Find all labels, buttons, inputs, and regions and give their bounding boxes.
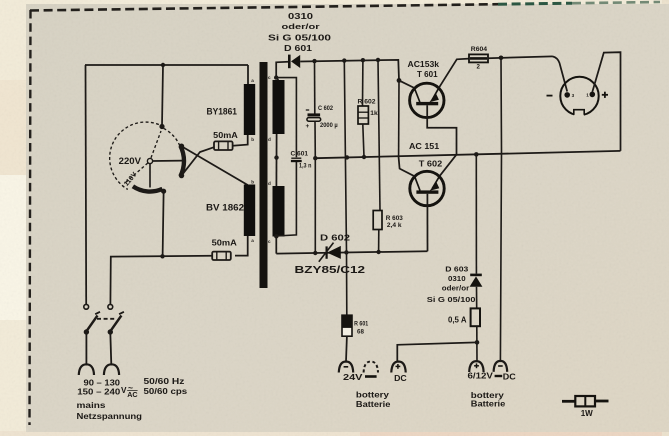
wire: secondary center tap: [275, 134, 277, 186]
svg-text:R604: R604: [471, 46, 488, 53]
transformer core: [260, 62, 268, 288]
label 24V with DC dash: [343, 372, 377, 382]
svg-text:1: 1: [586, 93, 589, 98]
node: secondary bottom junction: [274, 234, 278, 238]
switch pole 2 (mains): [108, 304, 124, 334]
svg-text:R 602: R 602: [358, 99, 376, 106]
label DC (24V): [394, 373, 407, 383]
node: zener rail R603: [376, 250, 380, 254]
wire: secondary top to D601: [276, 62, 288, 80]
node: junction top-left: [161, 63, 165, 67]
dashed mechanical link of switch: [97, 318, 116, 320]
transformer primary winding BV1862: [244, 185, 255, 237]
negative rail (AC151 rail): [315, 151, 620, 158]
svg-text:oder/or: oder/or: [442, 284, 470, 293]
wire: 6/12V minus vertical: [500, 58, 501, 362]
capacitor C602 2000u electrolytic: [306, 110, 321, 130]
transformer primary winding BY1861: [244, 84, 255, 135]
svg-text:1k: 1k: [370, 110, 378, 117]
wire: D603 to fuse 0.5A: [476, 287, 478, 309]
wire: junction down to selector: [162, 65, 163, 126]
wire: C602 node down to zener rail: [314, 158, 316, 253]
wire: T602 base lead down to zener rail: [426, 194, 428, 251]
label 6/12V with DC dash: [468, 372, 503, 381]
svg-text:R 601: R 601: [354, 321, 369, 328]
label 220V: [119, 156, 141, 166]
label BV1862: [206, 203, 244, 213]
label 1k: [370, 110, 378, 117]
diode D603: [470, 274, 483, 287]
label 50mA lower: [212, 238, 237, 248]
wire: primary2 bottom to fuse2: [235, 236, 248, 256]
label R602: [358, 99, 376, 106]
wire: fuse2 left to pole2: [110, 256, 212, 305]
label 150-240 V AC 50/60cps: [77, 383, 187, 399]
svg-text:T 601: T 601: [417, 69, 438, 79]
svg-text:Batterie: Batterie: [471, 400, 506, 409]
node: rail dot R602 branch: [361, 58, 365, 62]
label DC (6/12V): [503, 371, 516, 381]
fuse Si602 50mA lower: [212, 252, 231, 260]
mains terminal 1 (socket arc): [79, 364, 94, 375]
wire: selector bottom arc down to junction: [163, 193, 164, 256]
battery terminal 6/12V minus: [494, 361, 508, 372]
label AC153k: [408, 59, 440, 69]
svg-text:Si G 05/100: Si G 05/100: [427, 295, 476, 304]
battery terminal 6/12V plus: [469, 361, 483, 372]
transformer secondary winding lower: [273, 186, 285, 237]
wire: pole1 down to mains terminal 1: [85, 332, 87, 365]
wire: top rail D601 to T601: [300, 60, 399, 81]
svg-text:1W: 1W: [581, 408, 593, 418]
svg-text:R 603: R 603: [386, 215, 404, 222]
node: selector top contact: [159, 124, 164, 129]
label BY1861: [207, 107, 238, 117]
svg-text:c: c: [268, 239, 271, 244]
svg-text:220V: 220V: [119, 156, 141, 166]
label C602: [318, 105, 333, 112]
wire: C602 bottom to negative rail: [314, 121, 316, 158]
svg-text:d: d: [268, 137, 271, 142]
svg-text:AC153k: AC153k: [408, 59, 440, 69]
label D602: [320, 233, 350, 243]
wire: left frame vertical: [85, 65, 88, 304]
wire: DIN right pin up and down right side: [592, 52, 620, 151]
wire: jog to 24V plus terminal: [397, 342, 477, 361]
svg-text:1,3 n: 1,3 n: [299, 163, 311, 170]
wire: branch to C601: [276, 78, 296, 158]
wire: fuse to primary1 bottom: [233, 135, 248, 146]
svg-text:C 602: C 602: [318, 105, 333, 112]
node: rail D603 branch: [474, 152, 479, 157]
label 50mA upper: [213, 130, 238, 140]
wire: collector node down to negative rail: [398, 80, 400, 156]
zener rail (bottom): [276, 251, 427, 253]
svg-text:DC: DC: [503, 371, 516, 381]
wire: R603 top lead (to top rail): [378, 60, 380, 211]
battery terminal 24V plus DC: [391, 362, 405, 373]
fuse 0,5A: [471, 308, 480, 326]
node: rail dot R601 branch: [342, 58, 346, 62]
svg-text:50/60 Hz: 50/60 Hz: [144, 377, 185, 386]
fuse Si601 50mA upper: [214, 141, 233, 150]
node: rail dot C602: [312, 59, 316, 63]
transistor T602 AC151: [410, 171, 444, 205]
label T602: [419, 159, 443, 169]
svg-text:b: b: [251, 180, 254, 185]
transformer secondary winding upper: [273, 80, 285, 134]
node: zener rail R601 cross: [344, 250, 348, 254]
svg-text:0,5 A: 0,5 A: [448, 316, 467, 325]
svg-text:C 601: C 601: [291, 150, 309, 157]
svg-text:+: +: [306, 123, 310, 130]
svg-text:6/12V: 6/12V: [468, 372, 494, 381]
svg-text:a: a: [251, 78, 254, 83]
svg-text:BY1861: BY1861: [207, 107, 238, 117]
label 110V (rotated): [123, 171, 139, 188]
wire: secondary bottom to rail: [276, 236, 278, 253]
svg-text:50mA: 50mA: [213, 130, 238, 140]
wire: selector bottom contact to fuse Si601 (diagonal): [182, 147, 215, 175]
wire: primary1 top lead: [247, 65, 249, 84]
label 1W: [581, 408, 593, 418]
resistor R602 1k: [358, 106, 368, 124]
node: rail dot R603 branch: [376, 58, 380, 62]
wire: R602 top lead: [362, 60, 364, 106]
wire: T602 collector lead to rail: [399, 156, 415, 176]
node: T601 collector junction: [397, 78, 402, 83]
svg-text:50/60 cps: 50/60 cps: [144, 387, 188, 396]
switch pole 1 (mains): [84, 304, 100, 334]
wire: T601 base lead: [427, 105, 456, 176]
svg-text:BV 1862: BV 1862: [206, 203, 244, 213]
svg-text:D 603: D 603: [445, 264, 468, 273]
mains terminal 2 (socket arc): [104, 364, 119, 375]
svg-text:90 – 130: 90 – 130: [84, 378, 121, 387]
label 68: [357, 328, 364, 335]
wire: D603 branch vertical upper: [475, 154, 477, 273]
svg-text:BZY85/C12: BZY85/C12: [295, 265, 366, 276]
capacitor C601 1,3n: [291, 158, 302, 162]
node: junction fuse2 wire / selector return: [160, 254, 164, 258]
diode D601: [288, 55, 300, 69]
node: R601 line crossing negative rail: [345, 155, 349, 159]
svg-text:150 – 240: 150 – 240: [77, 388, 121, 397]
svg-text:DC: DC: [394, 373, 407, 383]
svg-text:50mA: 50mA: [212, 238, 237, 248]
label R604: [471, 46, 488, 53]
svg-text:2000 µ: 2000 µ: [320, 122, 338, 129]
wire: C602 branch vertical: [314, 61, 316, 114]
node: rail left end: [313, 156, 317, 160]
label C601: [291, 150, 309, 157]
label 2: [477, 64, 481, 71]
dashed page border top: [30, 2, 660, 11]
label R601: [354, 321, 369, 328]
label BZY85/C12: [295, 265, 366, 276]
svg-text:oder/or: oder/or: [282, 22, 320, 31]
wire: R601 branch vertical (rail to battery): [344, 61, 347, 315]
svg-text:Batterie: Batterie: [356, 400, 391, 409]
label mains Netzspannung: [77, 401, 143, 421]
wire: top-left loop horizontal: [85, 64, 248, 66]
resistor R603 2,4k: [373, 211, 382, 230]
node: rail dot 6/12V branch: [499, 56, 504, 61]
label block D603 (0310 oder/or SiG05/100): [427, 264, 476, 303]
wire: T601 emitter diagonal to R604: [439, 59, 469, 88]
node: junction 6/12V plus: [475, 340, 480, 345]
wire: selector top contact to BV1862 (diagonal): [182, 146, 248, 185]
wire: R604 to output rail: [488, 56, 553, 58]
label plus at DIN: [602, 92, 608, 98]
svg-text:bottery: bottery: [356, 391, 390, 400]
svg-text:68: 68: [357, 328, 364, 335]
battery terminal 24V minus: [339, 362, 353, 373]
wire: R602 bottom lead: [363, 124, 364, 157]
svg-text:AC: AC: [127, 390, 137, 399]
winding terminal letters: [251, 75, 271, 244]
node: secondary top junction: [274, 75, 278, 79]
label minus at DIN: [547, 95, 553, 97]
svg-text:0310: 0310: [448, 274, 466, 283]
label 1,3n: [299, 163, 311, 170]
node: secondary tap: [274, 155, 278, 159]
svg-text:2,4 k: 2,4 k: [387, 222, 402, 229]
voltage selector S1 220V/110V: [110, 122, 185, 194]
label R603: [386, 215, 404, 222]
wire: C601 bottom to secondary bottom: [276, 162, 296, 236]
zener diode D602 BZY85/C12: [319, 243, 341, 262]
svg-text:2: 2: [477, 64, 481, 71]
svg-text:Netzspannung: Netzspannung: [77, 412, 143, 421]
svg-text:b: b: [251, 137, 254, 142]
svg-text:D 601: D 601: [284, 44, 313, 53]
label 2000u: [320, 122, 338, 129]
wire: T601 collector diagonal: [399, 80, 414, 88]
wire: fuse to junction: [476, 326, 478, 361]
svg-text:0310: 0310: [288, 12, 314, 21]
label bottery Batterie right: [471, 391, 506, 408]
svg-text:3: 3: [572, 93, 575, 98]
dashed page border left: [30, 10, 31, 425]
svg-text:c: c: [268, 75, 271, 80]
DIN connector socket: [560, 77, 598, 117]
wire: R603 bottom lead: [378, 230, 380, 253]
label 90-130 50/60Hz: [84, 377, 185, 388]
resistor R601 68: [342, 315, 352, 336]
svg-text:D 602: D 602: [320, 233, 350, 243]
label 2,4k: [387, 222, 402, 229]
label bottery Batterie left: [356, 391, 391, 409]
label T601: [417, 69, 438, 79]
svg-text:d: d: [268, 181, 271, 186]
svg-text:Si G 05/100: Si G 05/100: [268, 33, 332, 42]
svg-text:24V: 24V: [343, 372, 363, 382]
node: zener rail C602 branch: [313, 251, 317, 255]
transistor T601 AC153k: [410, 83, 444, 117]
svg-text:AC 151: AC 151: [409, 141, 439, 151]
battery terminal spare (dashed): [364, 362, 378, 373]
resistor R604: [469, 54, 488, 62]
wire: pole2 down to mains terminal 2: [110, 332, 111, 365]
svg-text:mains: mains: [77, 401, 107, 410]
svg-text:T 602: T 602: [419, 159, 443, 169]
label block D601 (0310 oder/or SiG05/100): [268, 12, 332, 53]
wire: R601 to battery terminal: [345, 336, 348, 362]
svg-text:a: a: [251, 238, 254, 243]
resistor 1W symbol: [562, 396, 609, 406]
node: R602 to negative rail: [362, 155, 366, 159]
label 0,5A: [448, 316, 467, 325]
label AC151: [409, 141, 439, 151]
svg-text:V: V: [121, 386, 127, 395]
wire: output to DIN left pin: [553, 56, 568, 91]
